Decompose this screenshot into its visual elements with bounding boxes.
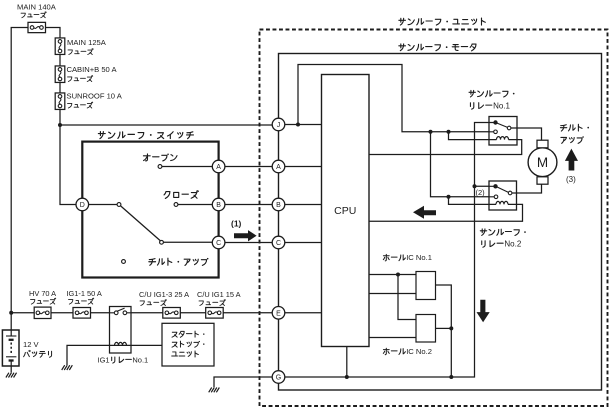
wire: IG1 relay coil to ground — [67, 345, 110, 365]
svg-text:No.2: No.2 — [504, 240, 521, 249]
arrow left toward CPU — [413, 206, 436, 219]
wire: IG1-1 fuse into IG1 relay No.1 — [91, 312, 115, 314]
fuse HV 70A — [34, 307, 51, 318]
junction hall IC outputs — [449, 326, 453, 330]
wire: branch to relay No.1 coil — [449, 132, 497, 140]
sunroof unit dashed enclosure — [260, 30, 608, 407]
junction hall IC feed — [396, 273, 400, 277]
coil of sunroof relay No.2 — [496, 201, 508, 204]
label (1) — [231, 219, 242, 229]
wire: switch B to unit B — [225, 204, 272, 206]
ground at G terminal — [209, 388, 220, 393]
node A unit — [272, 160, 285, 173]
junction common rail to relay No.2 — [473, 184, 477, 188]
svg-text:C: C — [216, 240, 221, 247]
wire: MAIN 125A to CABIN+B fuse — [59, 55, 61, 67]
svg-text:No.1: No.1 — [493, 101, 510, 110]
label fuse jp 8 — [199, 300, 225, 306]
svg-text:SUNROOF 10 A: SUNROOF 10 A — [67, 92, 123, 101]
node D switch — [76, 198, 89, 211]
label CABIN+B 50 A — [67, 65, 118, 74]
svg-text:IG1: IG1 — [98, 355, 110, 364]
wire: J power over CPU to sunroof relay No.1 NC contact — [298, 65, 494, 132]
label MAIN 140A — [17, 3, 57, 12]
svg-text:12 V: 12 V — [23, 340, 40, 349]
svg-text:B: B — [216, 202, 221, 209]
label IG1 relay No.1 — [98, 355, 149, 364]
ground below IG1 relay coil — [62, 365, 73, 370]
svg-text:J: J — [277, 122, 281, 129]
node C switch — [212, 236, 225, 249]
wire: SUNROOF fuse down to switch terminal D — [60, 110, 76, 205]
sunroof motor enclosure — [279, 54, 602, 391]
coil of relay IG1 No.1 — [115, 342, 127, 345]
contact: lever pivot — [117, 203, 121, 207]
label sunroof relay No.2 line2 — [482, 240, 522, 249]
label fuse jp 6 — [69, 298, 94, 304]
junction battery rail — [9, 311, 13, 315]
wire: switch A to unit A — [225, 166, 272, 168]
svg-text:A: A — [276, 164, 281, 171]
label fuse jp 1 — [21, 12, 46, 18]
junction SUNROOF fuse node — [58, 123, 62, 127]
wire: hall IC No.1 output down to G rail — [436, 285, 452, 377]
wire: branch to hall IC No.2 upper pin — [398, 275, 416, 320]
coil of sunroof relay No.1 — [497, 137, 509, 140]
wire: J into CPU — [285, 124, 322, 126]
wire: CPU ground drop to G rail — [346, 347, 348, 378]
node G unit — [272, 371, 285, 384]
wire: hall IC No.2 output — [436, 327, 452, 329]
ground below battery — [6, 373, 17, 378]
svg-text:B: B — [276, 202, 281, 209]
svg-text:IG1-1 50 A: IG1-1 50 A — [67, 289, 102, 298]
wire: battery to HV fuse — [11, 312, 34, 314]
svg-text:(3): (3) — [566, 175, 576, 184]
svg-text:No.1: No.1 — [132, 355, 148, 364]
label fuse jp 4 — [68, 102, 93, 108]
node B switch — [212, 198, 225, 211]
wire: CPU to hall IC No.1 upper pin — [369, 274, 416, 276]
junction J power branch — [296, 123, 300, 127]
label HV 70A — [29, 289, 56, 298]
wire: E into CPU — [285, 312, 322, 314]
wire: relay No.1 NO contact to motor upper brush — [511, 128, 542, 140]
wire: branch to relay No.2 common — [475, 185, 494, 187]
wire: CPU to hall IC No.1 lower pin — [369, 293, 416, 295]
svg-text:CABIN+B 50 A: CABIN+B 50 A — [67, 65, 118, 74]
arrow down at relays — [477, 300, 490, 323]
label sunroof relay No.1 line1 — [469, 90, 515, 96]
svg-text:G: G — [276, 375, 281, 382]
label start — [172, 331, 205, 337]
wire: tilt-up contact to C — [163, 241, 212, 243]
label close — [164, 191, 198, 199]
relay sunroof No.2 — [489, 181, 517, 210]
label sunroof switch — [98, 132, 193, 139]
label (3) — [566, 175, 576, 184]
svg-text:A: A — [216, 164, 221, 171]
svg-text:(2): (2) — [476, 188, 486, 197]
label fuse jp 7 — [140, 300, 166, 306]
label MAIN 125A — [67, 38, 107, 47]
wire: MAIN 140A fuse to MAIN 125A fuse — [46, 28, 61, 39]
wire: open contact to A — [162, 166, 213, 168]
wire: C into CPU — [285, 242, 322, 244]
label tilt-up switch — [149, 258, 209, 265]
contact: close position — [174, 203, 178, 207]
fuse MAIN 140A — [28, 22, 46, 32]
wire: MAIN 140A fuse to battery vertical rail — [11, 28, 28, 313]
start-stop unit box — [162, 323, 214, 366]
label sunroof relay No.1 line2 — [470, 101, 510, 110]
label tilt line1 — [560, 124, 589, 131]
node A switch — [212, 160, 225, 173]
node C unit — [272, 236, 285, 249]
svg-text:CPU: CPU — [334, 205, 356, 217]
fuse C/U IG1-3 25A — [163, 308, 181, 319]
svg-text:IC No.2: IC No.2 — [406, 347, 432, 356]
wire: IG1 relay coil to start-stop unit — [127, 344, 163, 346]
wire: switch C to unit C — [225, 242, 272, 244]
junction hall output on G rail — [449, 375, 453, 379]
node B unit — [272, 198, 285, 211]
wire: A into CPU — [285, 166, 322, 168]
wire: rail down to battery positive — [10, 313, 12, 330]
node J unit — [272, 118, 285, 131]
label unit jp — [172, 351, 199, 357]
label 12V — [23, 340, 40, 349]
wire: C/U IG1 fuse to unit terminal E — [223, 312, 272, 314]
wire: SUNROOF fuse node to unit terminal J — [60, 124, 272, 126]
contact: lever tip at tilt-up — [160, 240, 164, 244]
label tilt line2 — [561, 136, 584, 143]
svg-text:IC No.1: IC No.1 — [406, 253, 432, 262]
hall IC No.2 — [416, 315, 436, 343]
relay IG1 No.1 — [110, 307, 132, 354]
wire: G rail up to relay No.1 common — [285, 123, 493, 378]
contact: open position — [158, 165, 162, 169]
wire: IG1 relay to C/U IG1-3 fuse — [127, 312, 163, 314]
label open — [143, 153, 177, 160]
contact: idle position — [122, 260, 126, 264]
svg-text:HV 70 A: HV 70 A — [29, 289, 56, 298]
arrow (1) right — [234, 230, 257, 241]
svg-text:E: E — [276, 310, 281, 317]
fuse IG1-1 50A — [73, 308, 91, 319]
label stop — [172, 341, 205, 347]
junction relay No.1 coil branch — [447, 130, 451, 134]
label sunroof unit — [399, 18, 485, 25]
wire: relay No.2 coil return to CPU — [369, 204, 523, 221]
junction relay No.2 coil branch — [447, 195, 451, 199]
wire: branch down to relay No.2 NC contact — [431, 132, 495, 197]
svg-text:MAIN 125A: MAIN 125A — [67, 38, 107, 47]
wire: switch lever arm — [121, 206, 161, 241]
wire: G terminal to chassis ground — [214, 377, 272, 387]
wire: HV fuse to IG1-1 fuse — [51, 312, 73, 314]
sunroof switch box — [82, 142, 218, 278]
label sunroof relay No.2 line1 — [480, 229, 526, 235]
label IG1-1 50A — [67, 289, 102, 298]
svg-text:(1): (1) — [231, 219, 242, 229]
arrow (3) up tilt — [565, 149, 578, 171]
label sunroof motor — [399, 44, 476, 51]
battery 12V — [2, 330, 19, 366]
wire: B into CPU — [285, 204, 322, 206]
fuse C/U IG1 15A — [206, 308, 224, 319]
label fuse jp 2 — [68, 49, 93, 55]
label C/U IG1 15A — [197, 290, 241, 299]
wire: CPU to hall IC No.2 lower pin — [369, 337, 416, 339]
label hall IC No.1 — [383, 253, 432, 262]
wire: branch to relay No.2 coil — [449, 197, 497, 205]
wire: coil left lead — [110, 344, 115, 346]
svg-text:D: D — [80, 202, 85, 209]
junction CPU ground on G rail — [345, 375, 349, 379]
label battery jp — [24, 350, 52, 357]
wire: close contact to B — [178, 204, 213, 206]
wire: battery negative to ground — [10, 366, 12, 373]
CPU U1 — [322, 75, 370, 347]
svg-text:C/U IG1-3 25 A: C/U IG1-3 25 A — [139, 290, 189, 299]
fuse CABIN+B 50A — [55, 66, 65, 83]
wire: relay No.1 coil return to CPU — [369, 140, 522, 155]
label SUNROOF 10 A — [67, 92, 123, 101]
label fuse jp 5 — [31, 298, 56, 304]
label hall IC No.2 — [383, 347, 432, 356]
wire: relay No.2 NO contact to motor lower brush — [512, 184, 542, 193]
fuse MAIN 125A — [55, 38, 65, 55]
label (2) — [476, 188, 486, 197]
svg-text:C/U IG1 15 A: C/U IG1 15 A — [197, 290, 241, 299]
hall IC No.1 — [416, 272, 436, 300]
motor M sunroof — [528, 140, 557, 184]
relay sunroof No.1 — [489, 117, 517, 146]
node E unit — [272, 307, 285, 320]
svg-text:MAIN 140A: MAIN 140A — [17, 3, 57, 12]
label fuse jp 3 — [68, 76, 93, 82]
wire: C/U IG1-3 fuse to C/U IG1 fuse — [180, 312, 205, 314]
fuse SUNROOF 10A — [55, 93, 65, 110]
junction relay No.2 branch — [429, 130, 433, 134]
label C/U IG1-3 25A — [139, 290, 189, 299]
wire: D to switch lever pivot — [89, 204, 117, 206]
svg-text:M: M — [537, 155, 548, 170]
svg-text:C: C — [276, 240, 281, 247]
wire: CABIN+B to SUNROOF fuse — [59, 83, 61, 94]
